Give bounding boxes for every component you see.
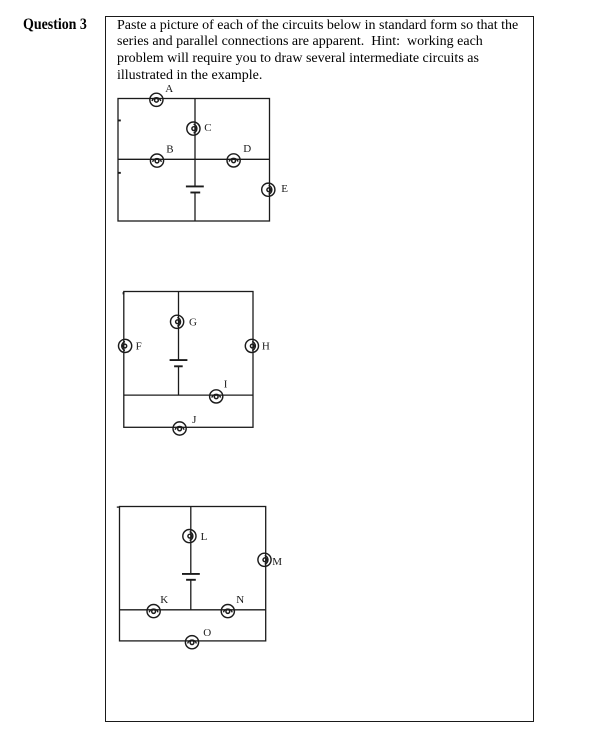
lamp J (173, 422, 186, 435)
node stub top-left (circuit 3) (117, 506, 120, 508)
lamp A (150, 93, 163, 106)
lamp H (245, 339, 258, 352)
wire middle horizontal (circuit 2) (124, 394, 253, 396)
node tick left lower (circuit 1) (118, 172, 120, 174)
svg-text:M: M (272, 556, 282, 568)
lamp F (119, 339, 132, 352)
wire middle branch upper (circuit 1) (194, 99, 196, 187)
svg-text:L: L (201, 531, 208, 543)
svg-text:I: I (224, 379, 228, 391)
battery B2 (circuit 2) (170, 360, 188, 366)
wire middle branch lower (circuit 1) (194, 193, 196, 222)
battery B3 (circuit 3) (182, 574, 200, 580)
lamp I (210, 390, 223, 403)
svg-text:H: H (262, 341, 270, 353)
wire middle branch upper (circuit 2) (178, 292, 180, 361)
svg-text:F: F (136, 341, 142, 353)
lamp C (187, 122, 200, 135)
circuit 2 outer loop wire (124, 292, 253, 428)
svg-text:A: A (165, 83, 173, 95)
svg-text:O: O (203, 627, 211, 639)
wire middle horizontal (circuit 3) (120, 609, 266, 611)
wire middle branch lower (circuit 2) (178, 366, 180, 395)
svg-text:B: B (166, 143, 173, 155)
svg-text:N: N (236, 594, 244, 606)
lamp E (262, 183, 275, 196)
battery B1 (circuit 1) (186, 186, 204, 192)
lamp L (183, 530, 196, 543)
svg-text:J: J (192, 414, 197, 426)
svg-text:D: D (243, 143, 251, 155)
lamp K (147, 605, 160, 618)
node tick left upper (circuit 1) (118, 120, 120, 122)
svg-text:E: E (281, 183, 288, 195)
wire middle branch lower (circuit 3) (190, 580, 192, 610)
wire middle horizontal (circuit 1) (118, 158, 270, 160)
svg-text:K: K (160, 594, 168, 606)
svg-text:G: G (189, 317, 197, 329)
wire middle branch upper (circuit 3) (190, 507, 192, 574)
lamp O (185, 636, 198, 649)
lamp B (150, 154, 163, 167)
svg-text:C: C (204, 122, 211, 134)
circuit 1 outer loop wire (118, 99, 270, 222)
circuit 3 outer loop wire (120, 507, 266, 641)
lamp G (171, 315, 184, 328)
lamp M (258, 553, 271, 566)
node blob top-left corner (circuit 2) (123, 292, 125, 294)
lamp N (221, 605, 234, 618)
lamp D (227, 154, 240, 167)
